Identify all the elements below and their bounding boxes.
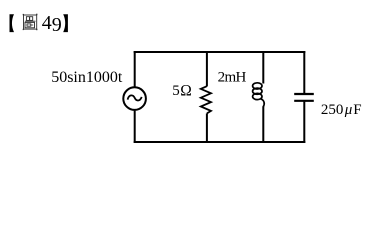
svg-text:250: 250 [321,102,344,118]
capacitor C plates [294,94,314,101]
inductor L 2mH coil [253,83,265,107]
svg-text:F: F [353,102,361,118]
wire: left branch top [134,51,136,87]
svg-text:Ω: Ω [180,83,192,100]
svg-text:5: 5 [172,83,180,99]
svg-text:μ: μ [344,102,353,118]
title glyph 圖 [23,14,38,31]
wire: right branch bottom [303,101,305,143]
wire: resistor branch top [206,51,208,86]
resistor R 5ohm zigzag [201,86,211,113]
wire: right branch top [303,51,305,94]
wire: left branch bottom [134,111,136,143]
wire: inductor branch top [262,51,264,84]
svg-text:2mH: 2mH [218,70,247,86]
wire: inductor branch bottom [262,106,264,143]
wire: top bus [134,51,306,53]
title right bracket 】 [63,14,68,32]
AC source V1 [123,87,146,110]
title left bracket 【 [10,14,15,32]
wire: resistor branch bottom [206,113,208,143]
svg-text:49: 49 [42,12,62,36]
svg-text:50sin1000t: 50sin1000t [51,69,123,86]
wire: bottom bus [134,141,306,143]
